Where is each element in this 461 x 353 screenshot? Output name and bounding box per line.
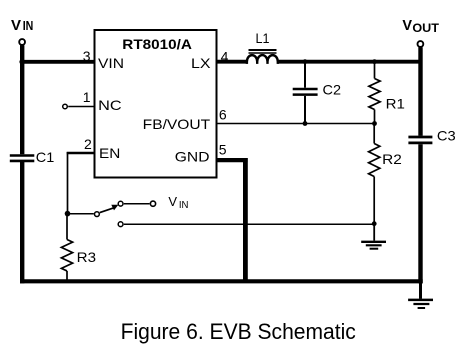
svg-text:V: V [402, 18, 412, 34]
svg-text:5: 5 [219, 142, 227, 158]
svg-text:R1: R1 [386, 95, 406, 111]
svg-text:V: V [11, 17, 21, 34]
svg-text:1: 1 [83, 89, 91, 105]
svg-text:R2: R2 [382, 151, 402, 167]
svg-text:V: V [168, 194, 177, 209]
svg-text:RT8010/A: RT8010/A [122, 36, 192, 52]
svg-text:IN: IN [179, 199, 189, 211]
svg-text:OUT: OUT [412, 21, 439, 35]
svg-text:3: 3 [83, 48, 91, 64]
svg-text:C1: C1 [36, 149, 55, 165]
svg-text:C2: C2 [323, 82, 342, 98]
svg-text:GND: GND [175, 149, 210, 165]
svg-text:Figure 6. EVB Schematic: Figure 6. EVB Schematic [121, 319, 356, 344]
svg-text:FB/VOUT: FB/VOUT [143, 116, 211, 132]
svg-text:NC: NC [98, 97, 122, 113]
svg-text:C3: C3 [437, 127, 456, 143]
svg-text:LX: LX [191, 55, 211, 71]
svg-text:6: 6 [219, 106, 227, 122]
svg-text:VIN: VIN [98, 55, 124, 71]
svg-text:2: 2 [84, 136, 92, 152]
svg-text:R3: R3 [77, 249, 97, 265]
svg-text:IN: IN [23, 19, 34, 33]
svg-text:EN: EN [99, 145, 120, 161]
svg-text:L1: L1 [256, 30, 270, 46]
